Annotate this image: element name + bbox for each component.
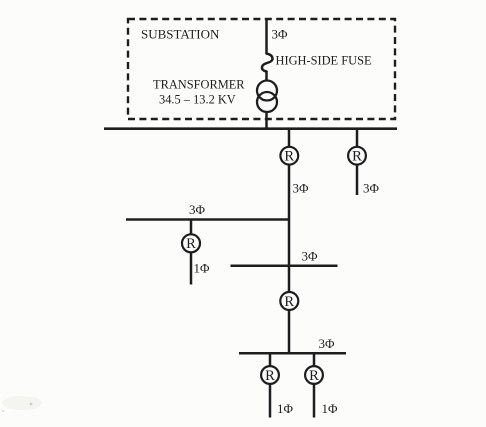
wire main feeder upper segment bbox=[288, 129, 291, 147]
svg-text:R: R bbox=[284, 149, 294, 165]
wire right bus branch bbox=[356, 129, 359, 147]
recloser R3 bbox=[182, 234, 200, 252]
svg-text:R: R bbox=[186, 236, 196, 252]
svg-text:R: R bbox=[265, 368, 275, 384]
svg-text:R: R bbox=[309, 368, 319, 384]
recloser R1 bbox=[280, 147, 298, 165]
svg-text:3Φ: 3Φ bbox=[272, 27, 289, 42]
wire right branch below R2 bbox=[356, 165, 359, 195]
wire incoming 3-phase feed bbox=[265, 19, 268, 54]
svg-text:3Φ: 3Φ bbox=[293, 181, 310, 196]
wire left tap upper bbox=[190, 220, 193, 235]
transformer T1 34.5-13.2 KV bbox=[257, 81, 277, 101]
wire bottom right tap lower bbox=[313, 384, 316, 418]
svg-text:SUBSTATION: SUBSTATION bbox=[141, 27, 220, 42]
svg-text:3Φ: 3Φ bbox=[189, 202, 206, 217]
wire fuse to transformer bbox=[265, 71, 268, 81]
wire left tap lower bbox=[190, 253, 193, 285]
recloser R4 bbox=[280, 292, 298, 310]
wire bottom right tap upper bbox=[313, 353, 316, 366]
svg-text:3Φ: 3Φ bbox=[319, 336, 336, 351]
svg-text:1Φ: 1Φ bbox=[322, 401, 339, 416]
svg-text:HIGH-SIDE FUSE: HIGH-SIDE FUSE bbox=[276, 53, 372, 67]
scan smudge bottom-left bbox=[2, 396, 42, 410]
fuse F1 high-side fuse bbox=[262, 54, 273, 72]
bus main distribution bus bbox=[104, 127, 397, 130]
recloser R6 bbox=[305, 366, 323, 384]
lateral middle 3-phase bbox=[231, 264, 338, 267]
recloser R2 bbox=[348, 147, 366, 165]
svg-text:TRANSFORMER: TRANSFORMER bbox=[153, 78, 245, 92]
wire bottom left tap upper bbox=[269, 353, 272, 366]
svg-text:1Φ: 1Φ bbox=[277, 401, 294, 416]
wire transformer to bus bbox=[265, 111, 268, 129]
svg-text:1Φ: 1Φ bbox=[194, 261, 211, 276]
lateral left 3-phase bbox=[126, 218, 289, 221]
svg-text:R: R bbox=[284, 294, 294, 310]
svg-text:34.5 – 13.2 KV: 34.5 – 13.2 KV bbox=[159, 92, 236, 106]
wire main feeder between laterals bbox=[288, 220, 291, 293]
svg-text:3Φ: 3Φ bbox=[302, 249, 319, 264]
wire main feeder lower segment bbox=[288, 311, 291, 354]
wire bottom left tap lower bbox=[269, 384, 272, 418]
recloser R5 bbox=[261, 366, 279, 384]
substation dashed boundary box bbox=[128, 19, 395, 119]
wire main feeder below R1 bbox=[288, 165, 291, 220]
svg-text:R: R bbox=[352, 149, 362, 165]
svg-text:3Φ: 3Φ bbox=[363, 181, 380, 196]
lateral bottom 3-phase bbox=[239, 352, 346, 355]
